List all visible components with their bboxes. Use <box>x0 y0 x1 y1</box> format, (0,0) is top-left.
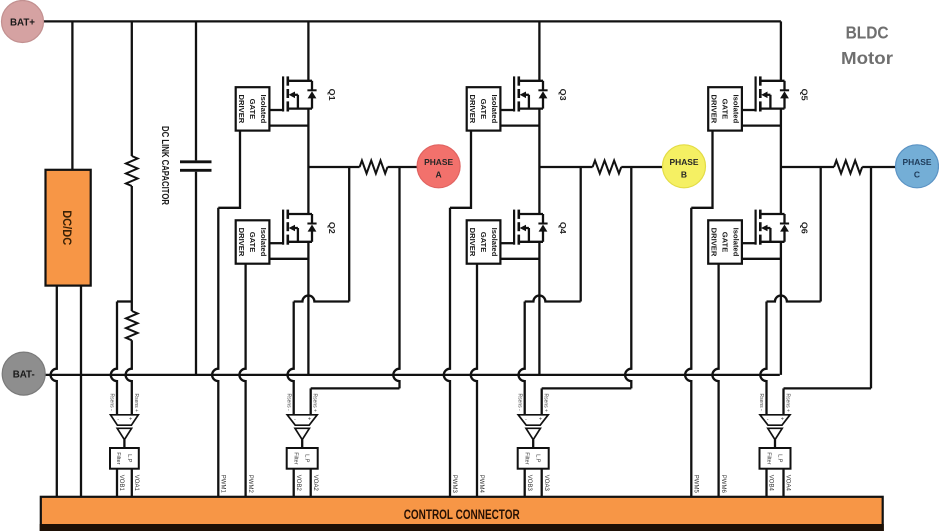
svg-text:B: B <box>681 169 687 179</box>
svg-text:DRIVER: DRIVER <box>468 228 477 257</box>
svg-text:Filter: Filter <box>524 452 530 464</box>
svg-text:Q1: Q1 <box>327 89 337 101</box>
svg-text:VOA4: VOA4 <box>785 475 791 492</box>
svg-text:DRIVER: DRIVER <box>709 95 718 124</box>
svg-text:Filter: Filter <box>115 452 121 464</box>
svg-text:L.P: L.P <box>304 454 310 463</box>
svg-text:Q4: Q4 <box>558 222 568 234</box>
svg-text:DC LINK CAPACITOR: DC LINK CAPACITOR <box>159 126 170 206</box>
svg-text:BAT+: BAT+ <box>10 17 35 29</box>
svg-text:PWM1: PWM1 <box>220 475 226 494</box>
svg-text:DRIVER: DRIVER <box>468 95 477 124</box>
svg-text:VOB4: VOB4 <box>768 475 774 492</box>
svg-text:DRIVER: DRIVER <box>237 95 246 124</box>
svg-text:Rsens +: Rsens + <box>133 394 139 413</box>
svg-text:GATE: GATE <box>720 99 729 120</box>
svg-text:Q5: Q5 <box>800 89 810 101</box>
svg-text:PWM2: PWM2 <box>247 475 253 494</box>
svg-text:VOA2: VOA2 <box>312 475 318 492</box>
svg-text:GATE: GATE <box>248 99 257 120</box>
svg-text:VOA1: VOA1 <box>133 475 139 492</box>
svg-text:-: - <box>767 417 769 423</box>
svg-text:Q2: Q2 <box>327 222 337 234</box>
svg-text:Rsens -: Rsens - <box>758 394 764 412</box>
svg-text:DC/DC: DC/DC <box>60 210 74 245</box>
svg-text:PWM4: PWM4 <box>478 475 484 494</box>
svg-text:Isolated: Isolated <box>490 228 499 257</box>
svg-text:L.P: L.P <box>777 454 783 463</box>
svg-text:Rsens -: Rsens - <box>285 394 291 412</box>
svg-text:Rsens +: Rsens + <box>312 394 318 413</box>
svg-text:PHASE: PHASE <box>903 157 932 167</box>
svg-text:L.P: L.P <box>126 454 132 463</box>
svg-text:Q6: Q6 <box>800 222 810 234</box>
svg-text:Rsens +: Rsens + <box>785 394 791 413</box>
svg-text:Filter: Filter <box>766 452 772 464</box>
svg-text:GATE: GATE <box>479 232 488 253</box>
svg-text:-: - <box>117 417 119 423</box>
svg-text:Isolated: Isolated <box>731 95 740 124</box>
svg-text:+: + <box>539 417 542 423</box>
svg-text:Isolated: Isolated <box>259 95 268 124</box>
svg-text:GATE: GATE <box>248 232 257 253</box>
svg-text:A: A <box>436 169 442 179</box>
svg-text:VOA3: VOA3 <box>543 475 549 492</box>
svg-text:Isolated: Isolated <box>259 228 268 257</box>
svg-text:L.P: L.P <box>535 454 541 463</box>
svg-text:VOB1: VOB1 <box>118 475 124 492</box>
svg-text:DRIVER: DRIVER <box>709 228 718 257</box>
svg-text:GATE: GATE <box>479 99 488 120</box>
svg-text:+: + <box>781 417 784 423</box>
svg-text:VOB3: VOB3 <box>526 475 532 492</box>
svg-text:PWM5: PWM5 <box>693 475 699 494</box>
svg-text:Filter: Filter <box>293 452 299 464</box>
svg-text:VOB2: VOB2 <box>295 475 301 492</box>
svg-text:DRIVER: DRIVER <box>237 228 246 257</box>
svg-text:Rsens -: Rsens - <box>109 394 115 412</box>
svg-text:PHASE: PHASE <box>670 157 699 167</box>
svg-text:PWM3: PWM3 <box>451 475 457 494</box>
svg-text:Q3: Q3 <box>558 89 568 101</box>
svg-text:Motor: Motor <box>841 48 893 68</box>
svg-text:-: - <box>525 417 527 423</box>
svg-text:+: + <box>308 417 311 423</box>
svg-text:CONTROL CONNECTOR: CONTROL CONNECTOR <box>404 507 520 522</box>
svg-text:BLDC: BLDC <box>846 22 889 42</box>
svg-text:-: - <box>294 417 296 423</box>
svg-text:PHASE: PHASE <box>424 157 453 167</box>
svg-text:Isolated: Isolated <box>731 228 740 257</box>
svg-text:+: + <box>129 417 132 423</box>
svg-text:Rsens -: Rsens - <box>516 394 522 412</box>
svg-text:Rsens +: Rsens + <box>543 394 549 413</box>
svg-text:GATE: GATE <box>720 232 729 253</box>
svg-text:C: C <box>914 169 920 179</box>
svg-text:PWM6: PWM6 <box>720 475 726 494</box>
svg-text:BAT-: BAT- <box>13 369 35 381</box>
svg-text:Isolated: Isolated <box>490 95 499 124</box>
